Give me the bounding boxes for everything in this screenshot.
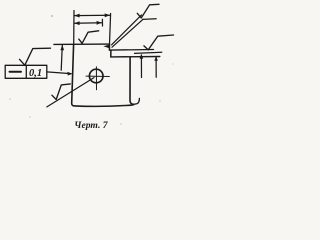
dimension line B [75,22,102,25]
roughness symbol 3 (above tolerance frame) [20,48,51,65]
dimension line A [75,14,110,16]
roughness symbol 4 (bottom left) [52,84,70,100]
shelf 2 [135,52,162,53]
leader D2 to shelf 1 [112,19,143,47]
scan noise specks [9,15,173,125]
arrow vertical left dim [60,45,64,50]
extension line left (x=74) [73,11,75,45]
tolerance frame divider [25,65,27,78]
roughness symbol 1 (top right) [137,4,159,18]
part step edges top-right [109,44,111,57]
dim line vertical left (x=62) [61,45,62,70]
leader D1 to roughness 1 [112,15,142,45]
arrow dimB left [74,21,79,25]
part right edge [130,57,134,105]
arrow dimA right [105,13,110,17]
shelf 1 [143,18,157,21]
extension tick for B [101,19,103,26]
dim line vertical right 2 (x=156) [155,58,157,78]
hole circle [89,69,103,83]
leader from frame to part [47,72,71,74]
roughness symbol 5 (on top edge, under dim B) [79,31,99,44]
hole centerline vertical [95,67,97,90]
svg-text:0,1: 0,1 [29,68,42,79]
arrow frame leader [67,72,73,76]
arrow right dim 1 [140,54,144,59]
extension line y=50 to right [111,49,154,52]
arrow right dim 2 [154,56,158,61]
bottom edge overshoot hook [134,98,140,104]
tolerance frame [5,65,47,78]
arrow dimA left [74,14,79,18]
dim line vertical right 1 (x=141) [140,55,142,78]
roughness symbol 2 (right) [144,35,174,50]
extension line right (x=110) [110,14,111,45]
part outline [72,44,134,106]
arrow dimB right [97,21,102,25]
straightness dash symbol [10,71,22,73]
part right-top surface + extension to right [111,56,160,58]
arrow leader wedge top-right [103,45,109,49]
hole centerline horizontal [86,75,109,77]
svg-text:Черт. 7: Черт. 7 [74,120,108,131]
part top edge with left extension [54,43,110,45]
leader to hole [47,78,94,107]
